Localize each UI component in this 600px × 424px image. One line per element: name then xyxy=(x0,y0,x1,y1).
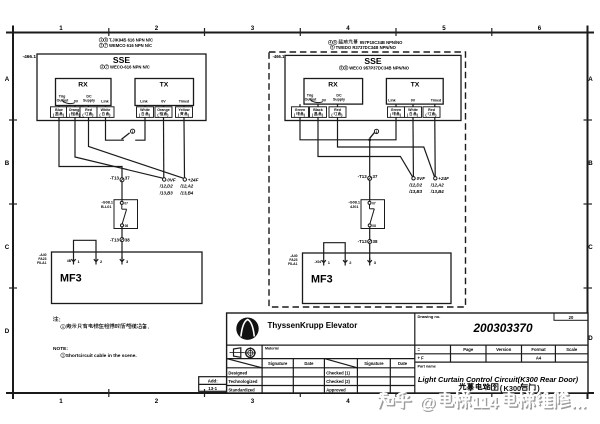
svg-text:/12,A2: /12,A2 xyxy=(430,182,444,187)
svg-text:A: A xyxy=(588,76,593,83)
svg-text:Blue: Blue xyxy=(55,108,63,112)
ThyssenKrupp logo xyxy=(236,318,258,340)
wire T13:37 to contact right xyxy=(369,180,371,201)
svg-text:Supply: Supply xyxy=(83,99,95,103)
svg-text:Signature: Signature xyxy=(364,361,384,366)
revision box Add xyxy=(199,377,227,392)
svg-text:-T13: -T13 xyxy=(110,237,120,242)
switch blade S2 right xyxy=(370,133,375,139)
svg-text:Technologized: Technologized xyxy=(228,379,257,384)
svg-text:/13,B4: /13,B4 xyxy=(430,189,444,194)
svg-text:Link: Link xyxy=(388,99,395,103)
wire T13:37 to contact left xyxy=(121,182,123,202)
svg-text:White: White xyxy=(408,108,418,112)
wire link TX side left xyxy=(135,121,145,141)
format table texts xyxy=(418,347,578,361)
svg-text:Shortcircuit cable in the scen: Shortcircuit cable in the scene. xyxy=(66,353,137,359)
circled 1 switch left xyxy=(131,129,135,133)
svg-text:4: 4 xyxy=(346,398,350,405)
svg-text:A: A xyxy=(5,76,10,83)
svg-text:Format: Format xyxy=(531,347,546,352)
projection symbol target circle xyxy=(245,347,256,358)
contact G08.1 left xyxy=(120,201,126,227)
box RX left xyxy=(56,79,112,106)
svg-text:FILA1: FILA1 xyxy=(288,262,298,266)
svg-text:/13,B3: /13,B3 xyxy=(408,189,422,194)
wire yellow TX timed down left xyxy=(183,121,186,178)
svg-text:Standardized: Standardized xyxy=(228,387,255,392)
pin 3 MF3 left xyxy=(120,257,124,265)
svg-text:RX: RX xyxy=(78,82,88,89)
svg-text:08: 08 xyxy=(125,224,129,228)
jumper pins 1-2 MF3 left xyxy=(74,240,97,258)
title block outer xyxy=(227,313,588,393)
svg-text:3: 3 xyxy=(126,259,129,264)
svg-text:200303370: 200303370 xyxy=(472,321,532,335)
column numbers top xyxy=(59,25,542,32)
svg-text:C: C xyxy=(5,244,10,251)
svg-text:Scale: Scale xyxy=(566,347,578,352)
svg-text:SSE: SSE xyxy=(113,55,130,65)
svg-text:4: 4 xyxy=(330,41,332,45)
signature table header texts xyxy=(268,361,408,366)
svg-text:Yellow: Yellow xyxy=(178,108,189,112)
terminal T13:38 right xyxy=(368,240,372,244)
wire color labels TX right xyxy=(388,107,441,118)
svg-text:5: 5 xyxy=(341,66,343,70)
wire color labels RX left xyxy=(51,107,115,118)
svg-text:1: 1 xyxy=(132,130,134,134)
svg-text:Link: Link xyxy=(140,100,147,104)
dashed enclosure right block xyxy=(269,52,466,307)
svg-text:T.JIK94Б 616 NPN N/C: T.JIK94Б 616 NPN N/C xyxy=(109,38,153,43)
wire color labels RX right xyxy=(292,107,347,118)
pin 1 MF3 left xyxy=(71,259,75,265)
svg-text:…: … xyxy=(571,394,588,412)
logo row bottom line xyxy=(227,344,588,346)
svg-text:Red: Red xyxy=(334,108,341,112)
title chinese xyxy=(459,383,466,390)
wire switch to green TX right xyxy=(371,121,396,140)
svg-text:White: White xyxy=(101,108,111,112)
svg-text:4J01: 4J01 xyxy=(350,205,358,209)
wire link RX side left xyxy=(106,121,125,141)
svg-text:07: 07 xyxy=(372,202,376,206)
svg-text:Add:: Add: xyxy=(208,379,219,384)
svg-text:7: 7 xyxy=(105,44,107,48)
svg-text:6: 6 xyxy=(105,38,107,42)
box SSE right xyxy=(285,55,461,120)
svg-text:-466.1: -466.1 xyxy=(23,54,37,60)
svg-text:B-L01: B-L01 xyxy=(101,205,112,209)
wire contact to T13:38 left xyxy=(121,227,123,238)
svg-text:WEMCO 616 NPN N/C: WEMCO 616 NPN N/C xyxy=(109,43,152,48)
junction dot right xyxy=(368,138,371,141)
jumper pins 1-2 MF3 right xyxy=(324,243,346,260)
svg-text:3: 3 xyxy=(251,398,255,405)
svg-text:-T13: -T13 xyxy=(358,239,368,244)
signature table lines xyxy=(227,359,415,393)
svg-text:-T13: -T13 xyxy=(110,175,120,180)
svg-text:3: 3 xyxy=(251,25,255,32)
svg-text:Orange: Orange xyxy=(157,108,170,112)
svg-text:Checked (2): Checked (2) xyxy=(326,379,350,384)
svg-text:0V: 0V xyxy=(161,100,166,104)
switch blade S1 left xyxy=(122,133,130,139)
pin 1 MF3 right xyxy=(322,260,326,266)
svg-text:3: 3 xyxy=(374,260,377,265)
svg-text:MF3: MF3 xyxy=(60,273,82,285)
svg-text:Date: Date xyxy=(398,361,408,366)
svg-text:(: ( xyxy=(500,384,503,393)
svg-text:Black: Black xyxy=(313,108,323,112)
svg-text:D: D xyxy=(5,328,10,335)
svg-text:/13,B4: /13,B4 xyxy=(179,190,193,195)
svg-text:): ) xyxy=(537,384,540,393)
svg-text:/12,A2: /12,A2 xyxy=(179,184,193,189)
svg-text:/12,D2: /12,D2 xyxy=(408,182,422,187)
svg-text:4B: 4B xyxy=(67,259,72,263)
svg-text:D: D xyxy=(588,335,593,342)
wire black RX 0V to 0VF right xyxy=(318,121,413,177)
wire blue trig-output left xyxy=(59,121,122,178)
material row divider xyxy=(261,345,263,359)
svg-text:+24F: +24F xyxy=(438,176,449,181)
svg-text:-466.1: -466.1 xyxy=(273,54,286,59)
svg-text:Orange: Orange xyxy=(69,108,82,112)
svg-text:2: 2 xyxy=(101,65,103,69)
terminal +24F left xyxy=(183,178,186,181)
svg-text:Red: Red xyxy=(428,108,435,112)
svg-text:TX: TX xyxy=(411,82,420,89)
contact box G08 right xyxy=(361,200,385,229)
circled 1 switch right xyxy=(374,129,378,133)
svg-text:Approved: Approved xyxy=(326,387,346,392)
terminal 0VF left xyxy=(163,178,166,181)
jumper arc trig-output to 0V (RX left) xyxy=(62,100,75,104)
svg-text:MF3: MF3 xyxy=(311,274,333,286)
svg-text:C: C xyxy=(588,244,593,251)
svg-text:2: 2 xyxy=(100,44,102,48)
svg-text:1: 1 xyxy=(100,38,102,42)
note 注: xyxy=(53,316,58,321)
svg-text:13-1: 13-1 xyxy=(208,386,217,391)
svg-text:Designed: Designed xyxy=(228,370,247,375)
svg-text:8: 8 xyxy=(345,66,347,70)
svg-text:B: B xyxy=(588,160,593,167)
svg-text:RX: RX xyxy=(328,82,338,89)
signature table row labels xyxy=(228,370,350,392)
svg-text:1: 1 xyxy=(59,398,63,405)
svg-text:ThyssenKrupp Elevator: ThyssenKrupp Elevator xyxy=(268,321,358,330)
svg-text:0VF: 0VF xyxy=(167,177,176,182)
svg-text:7: 7 xyxy=(106,65,108,69)
note type annotation right block line 1 xyxy=(328,40,332,44)
svg-text:Red: Red xyxy=(85,108,92,112)
svg-text:Part name: Part name xyxy=(418,364,436,368)
svg-text:/12,D2: /12,D2 xyxy=(159,184,173,189)
svg-text:6: 6 xyxy=(538,25,542,32)
pin 3 MF3 right xyxy=(368,258,372,266)
svg-text:Signature: Signature xyxy=(268,361,288,366)
contact box G08 left xyxy=(114,200,138,229)
row letters xyxy=(5,76,594,342)
svg-text:5: 5 xyxy=(332,45,334,49)
terminal T13:38 left xyxy=(120,238,124,242)
box TX left xyxy=(135,79,194,106)
wire red RX supply to +24F left xyxy=(89,121,184,179)
svg-text:2: 2 xyxy=(155,25,159,32)
svg-text:Green: Green xyxy=(295,108,305,112)
wire stubs inside SSE right xyxy=(300,104,435,120)
wire T13:38 to MF3 pin3 left xyxy=(121,242,123,259)
terminal 0VF right xyxy=(412,177,415,180)
note english line xyxy=(61,353,65,357)
svg-text:1: 1 xyxy=(376,130,378,134)
wire junction down to T13:37 right xyxy=(369,140,371,177)
svg-text:@: @ xyxy=(420,394,436,412)
svg-text:+ F: + F xyxy=(418,356,425,361)
svg-text:38: 38 xyxy=(125,237,130,242)
box MF3 left xyxy=(52,252,203,304)
wire stubs inside SSE left xyxy=(59,106,184,121)
title block main vertical divider xyxy=(414,313,416,393)
svg-text:1: 1 xyxy=(62,353,64,357)
svg-text:38: 38 xyxy=(373,239,378,244)
svg-text:1: 1 xyxy=(59,25,63,32)
box MF3 right xyxy=(303,253,452,304)
svg-text:1: 1 xyxy=(78,259,81,264)
wire T13:38 to MF3 pin3 right xyxy=(369,244,371,261)
svg-text:B: B xyxy=(5,160,10,167)
svg-text:Page: Page xyxy=(463,347,474,352)
contact G08.1 right xyxy=(368,201,374,227)
svg-text:0VF: 0VF xyxy=(417,176,426,181)
note type annotation left block line 1 xyxy=(99,38,103,42)
svg-text:Supply: Supply xyxy=(333,98,345,102)
svg-text:NOTE:: NOTE: xyxy=(53,346,68,352)
svg-text:20: 20 xyxy=(569,315,574,320)
svg-text:37: 37 xyxy=(125,175,130,180)
wire contact to T13:38 right xyxy=(369,227,371,240)
wire orange TX 0V down left xyxy=(163,121,165,178)
svg-text:/13,B3: /13,B3 xyxy=(159,190,173,195)
svg-text:Drawing no.: Drawing no. xyxy=(418,314,441,319)
svg-text:WECO 957P37DC34B NPN/NO: WECO 957P37DC34B NPN/NO xyxy=(349,66,410,71)
svg-text:Checked (1): Checked (1) xyxy=(326,370,350,375)
svg-text:Date: Date xyxy=(304,361,314,366)
svg-text:Material: Material xyxy=(265,347,279,351)
terminal +24F right xyxy=(434,177,437,180)
svg-text:07: 07 xyxy=(124,202,128,206)
projection symbol cone xyxy=(230,348,245,358)
note chinese line xyxy=(61,324,66,329)
pin 2 MF3 left xyxy=(94,259,98,265)
svg-text:+24F: +24F xyxy=(188,177,199,182)
svg-text:TWEDO R3737DC34B NPN/NO: TWEDO R3737DC34B NPN/NO xyxy=(336,45,397,50)
svg-text:FILA1: FILA1 xyxy=(37,261,47,265)
svg-text:4: 4 xyxy=(346,25,350,32)
svg-text:-T13: -T13 xyxy=(358,174,368,179)
svg-text:.: . xyxy=(148,325,150,331)
box RX right xyxy=(304,79,363,105)
svg-text:Timed: Timed xyxy=(431,99,442,103)
svg-text:0V: 0V xyxy=(411,99,416,103)
wire red TX timed down right xyxy=(434,121,436,177)
box TX right xyxy=(386,79,443,105)
wire green RX trig to switch right xyxy=(300,121,370,140)
svg-text:TX: TX xyxy=(160,82,169,89)
note type annotation left block line 2 xyxy=(99,43,103,47)
pin 2 MF3 right xyxy=(343,260,347,266)
svg-text:Version: Version xyxy=(496,347,512,352)
svg-text:WECO-616 NPN N/C: WECO-616 NPN N/C xyxy=(110,65,150,70)
svg-text:37: 37 xyxy=(373,174,378,179)
wire red RX supply to +24F right xyxy=(338,121,435,177)
svg-text:2: 2 xyxy=(349,260,352,265)
svg-text:Link: Link xyxy=(101,100,108,104)
svg-text:K300: K300 xyxy=(504,384,522,393)
note type annotation right block line 2 xyxy=(330,45,334,49)
svg-text:114: 114 xyxy=(472,394,499,412)
svg-text:A4: A4 xyxy=(536,356,542,361)
svg-text:Light Curtain Control Circuit(: Light Curtain Control Circuit(K300 Rear … xyxy=(418,375,579,384)
terminal T13:37 right xyxy=(368,176,372,180)
svg-text:Timed: Timed xyxy=(179,100,190,104)
svg-text:Green: Green xyxy=(391,108,401,112)
note inside SSE right xyxy=(339,66,343,70)
svg-text:1: 1 xyxy=(328,260,331,265)
jumper arc trig-output to 0V (RX right) xyxy=(310,99,323,103)
format table lines xyxy=(415,345,588,362)
svg-text:1: 1 xyxy=(62,325,64,329)
svg-text:2: 2 xyxy=(100,259,103,264)
svg-text:-X04: -X04 xyxy=(314,260,321,264)
svg-text:0V: 0V xyxy=(74,100,79,104)
svg-text:2: 2 xyxy=(155,398,159,405)
wire orange RX 0V to 0VF left xyxy=(75,121,163,179)
watermark zhihu xyxy=(380,393,395,408)
svg-text:0V: 0V xyxy=(322,99,327,103)
cell 20 xyxy=(554,313,588,320)
svg-text:08: 08 xyxy=(372,224,376,228)
svg-text:White: White xyxy=(140,108,150,112)
box SSE left xyxy=(37,54,206,121)
column numbers bottom xyxy=(59,398,542,405)
svg-text::: : xyxy=(59,318,61,324)
svg-text:5: 5 xyxy=(442,25,446,32)
note inside SSE left xyxy=(100,65,104,69)
terminal T13:37 left xyxy=(120,178,124,182)
wire color labels TX left xyxy=(137,107,193,118)
svg-text:SSE: SSE xyxy=(364,56,381,66)
wire white TX 0V down right xyxy=(412,121,414,177)
